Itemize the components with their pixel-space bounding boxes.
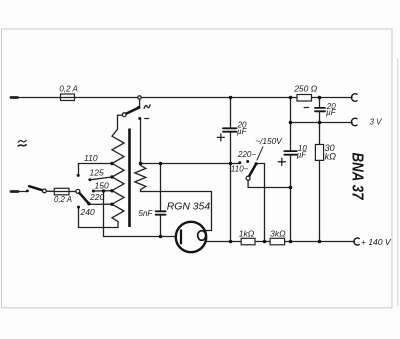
svg-text:240: 240: [80, 207, 95, 217]
svg-text:110: 110: [84, 153, 98, 163]
svg-text:250 Ω: 250 Ω: [293, 83, 318, 93]
svg-text:RGN 354: RGN 354: [167, 201, 211, 212]
svg-text:BNA 37: BNA 37: [348, 153, 365, 201]
svg-text:µF: µF: [237, 127, 248, 136]
svg-text:~/150V: ~/150V: [255, 136, 283, 146]
svg-text:0,2 A: 0,2 A: [59, 84, 77, 93]
svg-text:+ 140 V: + 140 V: [361, 237, 392, 247]
svg-text:1kΩ: 1kΩ: [239, 228, 255, 238]
svg-text:110−: 110−: [231, 164, 249, 173]
svg-text:kΩ: kΩ: [325, 151, 337, 161]
svg-text:220−: 220−: [237, 150, 256, 159]
svg-text:150: 150: [95, 181, 109, 191]
svg-text:µF: µF: [297, 151, 308, 160]
svg-text:3kΩ: 3kΩ: [270, 228, 286, 238]
svg-text:0,2 A: 0,2 A: [54, 195, 72, 204]
svg-text:5nF: 5nF: [139, 209, 154, 218]
svg-text:125: 125: [90, 167, 104, 177]
svg-text:220: 220: [89, 192, 104, 202]
svg-text:3 V: 3 V: [370, 118, 383, 127]
svg-text:µF: µF: [326, 108, 337, 117]
